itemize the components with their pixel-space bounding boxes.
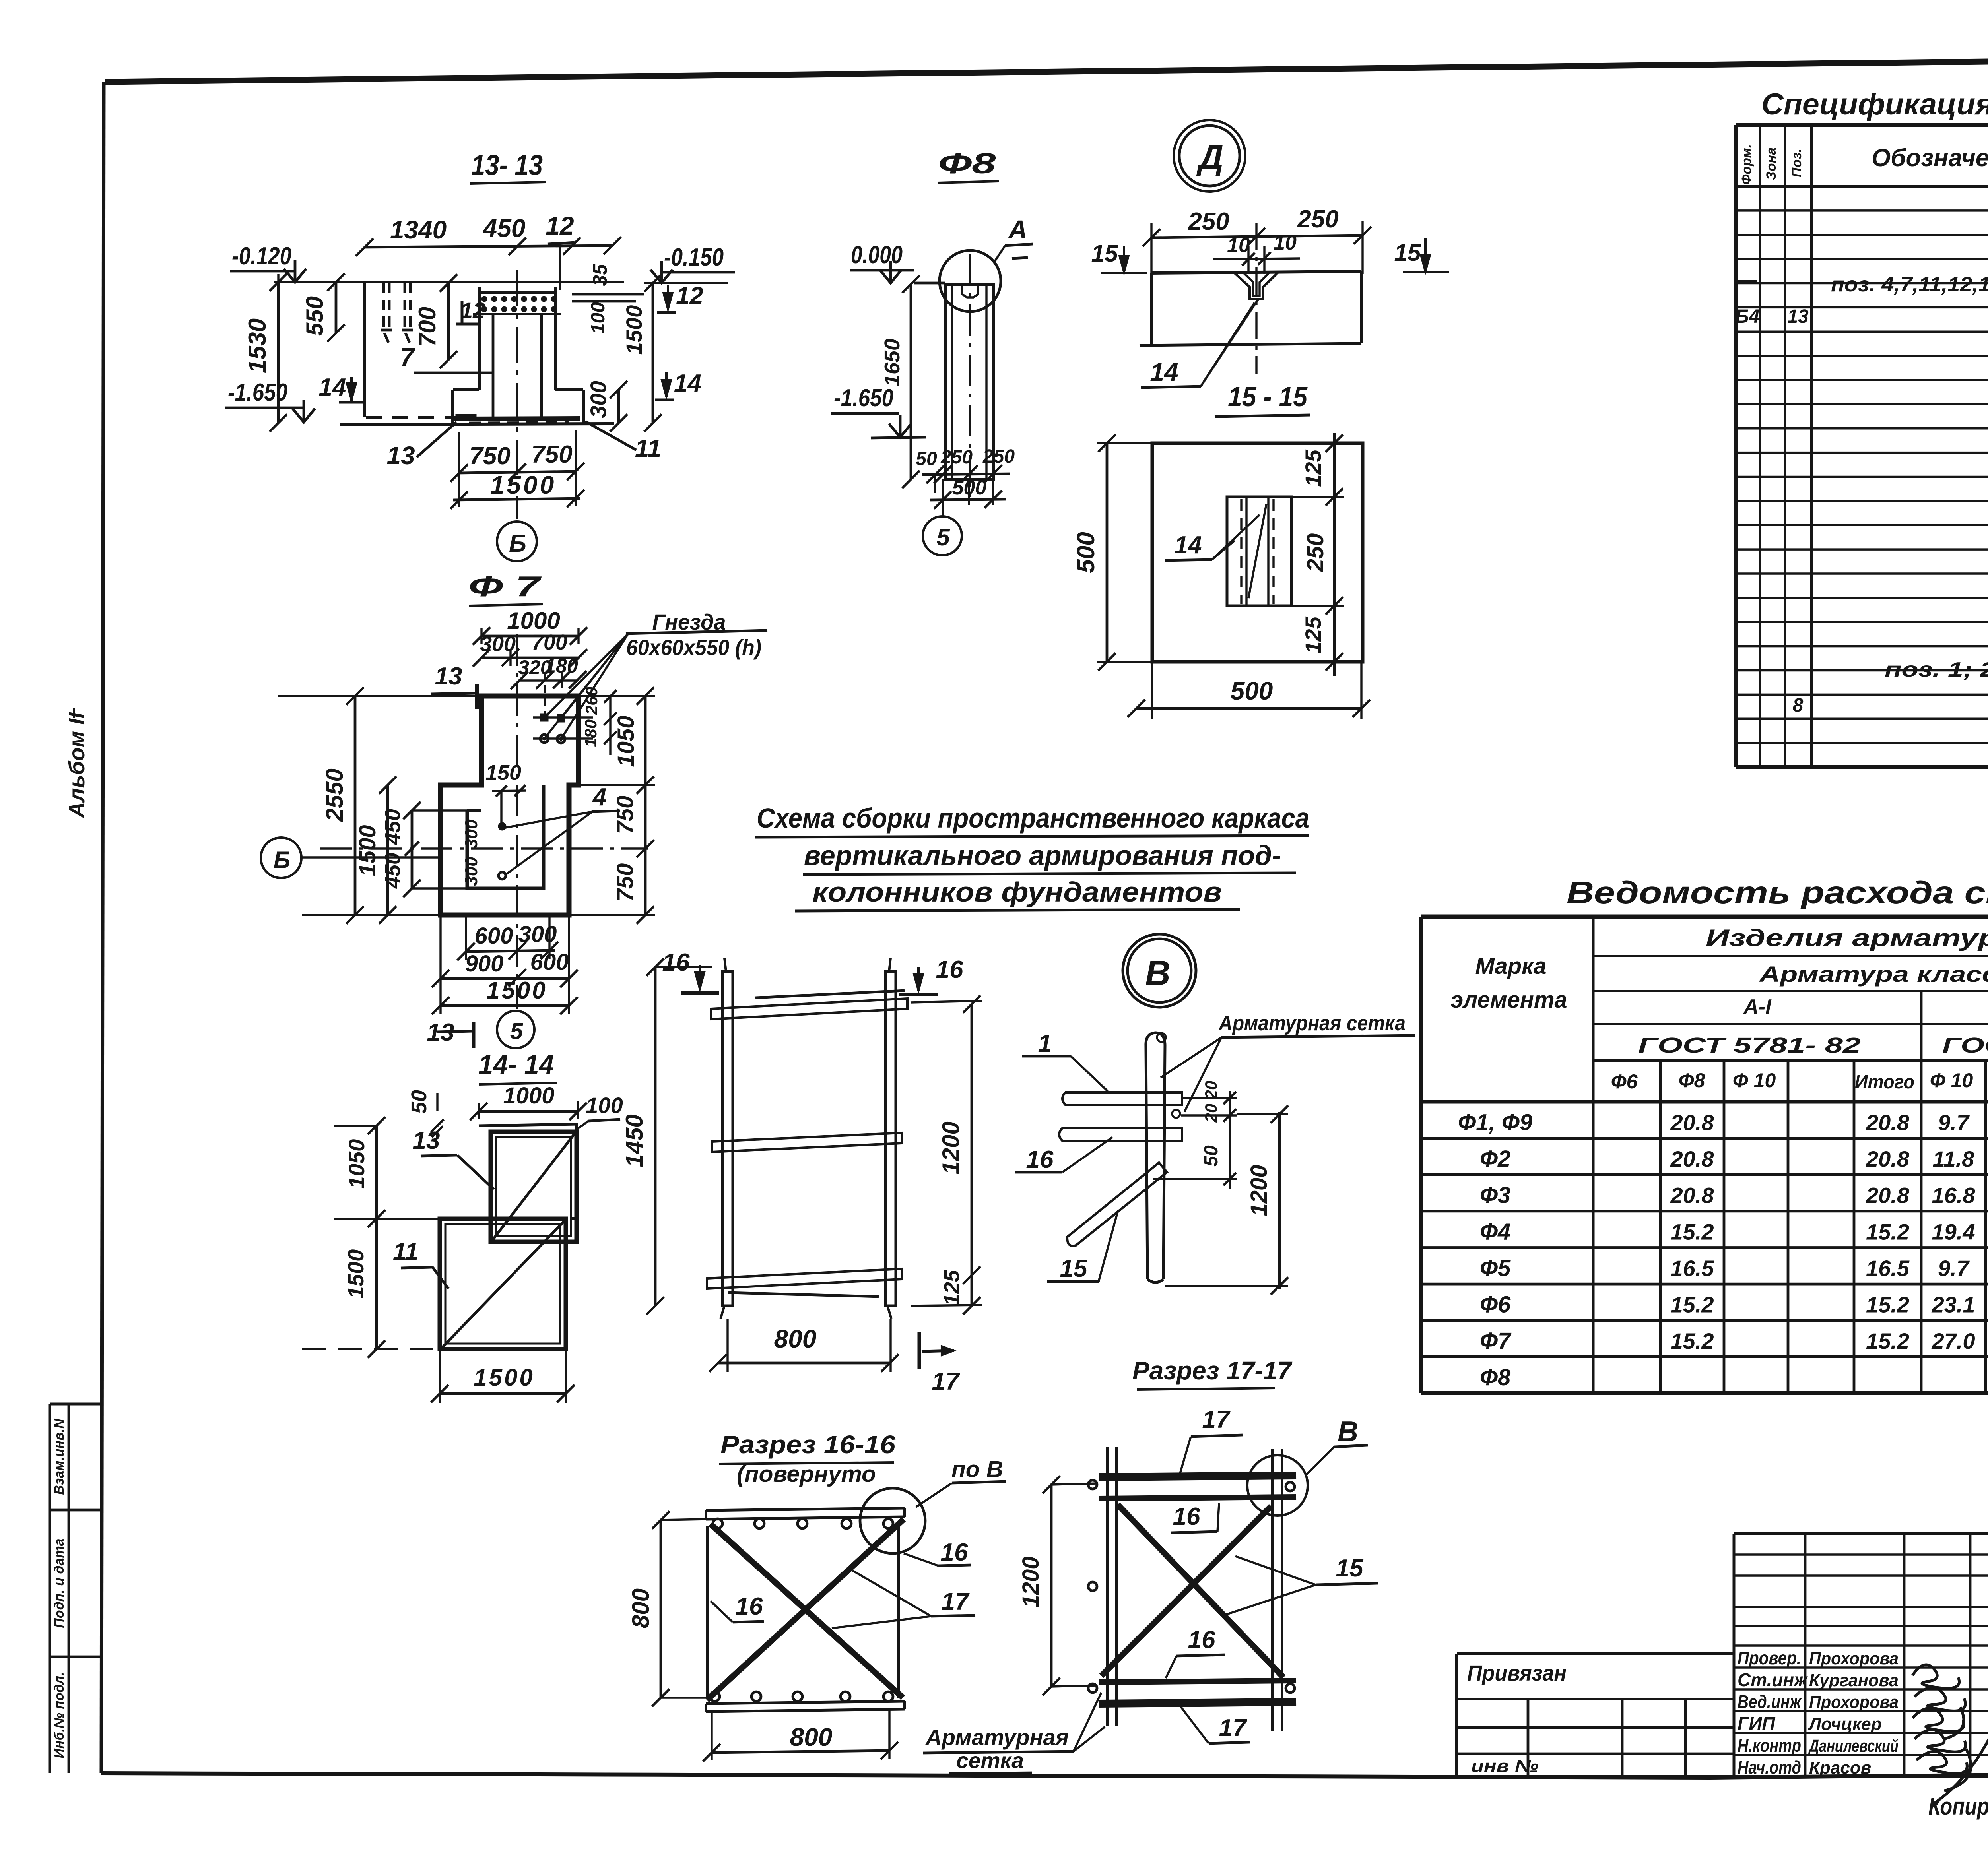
- svg-text:колонников фундаментов: колонников фундаментов: [812, 876, 1222, 907]
- svg-text:14: 14: [674, 370, 701, 397]
- svg-text:Красов: Красов: [1809, 1758, 1871, 1778]
- svg-text:ГОСТ 5781- 82: ГОСТ 5781- 82: [1638, 1033, 1861, 1057]
- svg-text:450: 450: [381, 809, 405, 845]
- svg-text:100: 100: [588, 302, 609, 334]
- svg-text:поз. 4,7,11,12,15,16,17 см. Ф7: поз. 4,7,11,12,15,16,17 см. Ф7: [1831, 273, 1988, 296]
- svg-text:Схема сборки пространственно: Схема сборки пространственного каркаса: [757, 803, 1309, 834]
- svg-text:11.8: 11.8: [1933, 1146, 1975, 1171]
- svg-text:16: 16: [936, 956, 963, 983]
- svg-text:Копировал: Антипова: Копировал: Антипова: [1928, 1793, 1988, 1820]
- svg-text:1340: 1340: [390, 215, 447, 244]
- svg-text:Спецификация к монолитным ф: Спецификация к монолитным фундаментам: [1761, 87, 1988, 121]
- svg-text:250: 250: [982, 446, 1015, 467]
- svg-text:1500: 1500: [474, 1364, 534, 1391]
- svg-text:14- 14: 14- 14: [478, 1049, 554, 1080]
- svg-text:Изделия арматурные: Изделия арматурные: [1706, 925, 1988, 951]
- svg-text:16: 16: [1188, 1626, 1215, 1654]
- svg-text:Б: Б: [509, 530, 526, 557]
- svg-text:9.7: 9.7: [1938, 1256, 1970, 1281]
- svg-text:15 - 15: 15 - 15: [1228, 381, 1308, 412]
- svg-text:250: 250: [1188, 208, 1229, 235]
- svg-text:600: 600: [530, 949, 569, 975]
- svg-text:Прохорова: Прохорова: [1809, 1649, 1899, 1668]
- svg-text:550: 550: [301, 296, 328, 336]
- svg-text:17: 17: [942, 1588, 970, 1615]
- svg-text:13: 13: [435, 663, 462, 690]
- svg-text:125: 125: [940, 1270, 964, 1306]
- svg-text:11: 11: [635, 434, 661, 463]
- svg-text:13- 13: 13- 13: [471, 149, 543, 181]
- svg-text:500: 500: [1072, 532, 1100, 573]
- svg-text:вертикального армирования по: вертикального армирования под-: [804, 840, 1281, 871]
- svg-text:50: 50: [916, 448, 937, 469]
- svg-text:60х60х550 (h): 60х60х550 (h): [626, 635, 761, 660]
- svg-text:15.2: 15.2: [1671, 1328, 1714, 1353]
- svg-text:14: 14: [319, 374, 346, 401]
- svg-text:16: 16: [736, 1593, 763, 1620]
- svg-text:750: 750: [612, 863, 638, 902]
- svg-text:800: 800: [790, 1723, 833, 1751]
- svg-text:Форм.: Форм.: [1739, 144, 1754, 185]
- svg-text:15.2: 15.2: [1866, 1219, 1909, 1244]
- svg-text:ГИП: ГИП: [1738, 1713, 1775, 1734]
- svg-text:14: 14: [1150, 358, 1178, 386]
- svg-text:4: 4: [592, 783, 606, 811]
- svg-text:300: 300: [462, 857, 481, 886]
- svg-text:1500: 1500: [343, 1249, 368, 1299]
- svg-text:300: 300: [518, 921, 557, 947]
- svg-text:Провер.: Провер.: [1738, 1648, 1801, 1668]
- svg-text:Ф8: Ф8: [1480, 1365, 1511, 1390]
- svg-text:Лочцкер: Лочцкер: [1808, 1714, 1882, 1734]
- svg-text:Ф 7: Ф 7: [468, 571, 542, 603]
- svg-text:700: 700: [532, 630, 567, 654]
- svg-text:Б4: Б4: [1736, 306, 1760, 327]
- svg-text:180: 180: [581, 719, 600, 747]
- svg-text:Н.контр: Н.контр: [1738, 1735, 1801, 1756]
- svg-text:15.2: 15.2: [1671, 1292, 1714, 1317]
- svg-text:В: В: [1338, 1416, 1358, 1448]
- svg-text:125: 125: [1301, 616, 1326, 653]
- svg-text:20: 20: [1202, 1081, 1220, 1100]
- svg-text:-1.650: -1.650: [834, 384, 893, 412]
- svg-text:23.1: 23.1: [1932, 1292, 1975, 1317]
- svg-text:Разрез 17-17: Разрез 17-17: [1132, 1356, 1293, 1385]
- svg-text:Взам.инв.N: Взам.инв.N: [52, 1418, 67, 1495]
- svg-text:1500: 1500: [355, 825, 381, 876]
- svg-text:Разрез 16-16: Разрез 16-16: [720, 1430, 895, 1459]
- svg-text:1: 1: [1038, 1030, 1052, 1057]
- svg-text:20: 20: [1202, 1104, 1220, 1123]
- svg-text:А-I: А-I: [1743, 995, 1772, 1018]
- svg-text:20.8: 20.8: [1866, 1110, 1910, 1135]
- svg-text:10: 10: [1274, 231, 1297, 254]
- svg-text:Б: Б: [274, 847, 290, 873]
- svg-text:Ф5: Ф5: [1480, 1255, 1511, 1281]
- svg-text:15.2: 15.2: [1671, 1219, 1714, 1244]
- svg-text:250: 250: [940, 447, 973, 468]
- svg-text:Ф4: Ф4: [1480, 1219, 1511, 1245]
- svg-text:17: 17: [1202, 1406, 1231, 1433]
- svg-text:1450: 1450: [621, 1114, 648, 1167]
- svg-text:Альбом II: Альбом II: [64, 712, 89, 819]
- svg-text:1200: 1200: [1246, 1165, 1272, 1216]
- svg-text:Ф7: Ф7: [1480, 1328, 1512, 1354]
- svg-text:750: 750: [531, 441, 572, 468]
- svg-text:Ст.инж: Ст.инж: [1738, 1669, 1808, 1690]
- svg-text:Арматурная: Арматурная: [925, 1725, 1069, 1750]
- svg-text:125: 125: [1301, 449, 1326, 487]
- svg-text:750: 750: [469, 442, 510, 470]
- svg-text:450: 450: [482, 214, 526, 242]
- svg-text:11: 11: [393, 1238, 418, 1266]
- svg-text:Арматура класса: Арматура класса: [1758, 962, 1988, 987]
- svg-text:50: 50: [407, 1090, 431, 1114]
- svg-text:2550: 2550: [321, 768, 348, 822]
- svg-text:700: 700: [414, 307, 441, 347]
- svg-text:В: В: [1145, 953, 1171, 993]
- svg-text:Ф8: Ф8: [938, 148, 996, 180]
- svg-text:—: —: [1735, 268, 1757, 292]
- svg-text:1500: 1500: [490, 471, 556, 499]
- svg-text:Арматурная сетка: Арматурная сетка: [1218, 1011, 1406, 1035]
- svg-text:Подп. и дата: Подп. и дата: [52, 1538, 67, 1628]
- svg-text:16.5: 16.5: [1671, 1256, 1714, 1281]
- svg-text:0.000: 0.000: [851, 241, 903, 269]
- svg-text:Прохорова: Прохорова: [1809, 1693, 1899, 1712]
- svg-text:10: 10: [1227, 234, 1250, 257]
- svg-text:27.0: 27.0: [1932, 1328, 1975, 1353]
- svg-text:Обозначение: Обозначение: [1872, 144, 1988, 172]
- svg-text:Ф6: Ф6: [1611, 1070, 1638, 1093]
- svg-text:Данилевский: Данилевский: [1808, 1736, 1899, 1756]
- svg-text:17: 17: [932, 1368, 960, 1395]
- svg-text:16.5: 16.5: [1866, 1256, 1910, 1281]
- svg-text:250: 250: [1297, 206, 1338, 233]
- svg-text:15: 15: [1060, 1255, 1088, 1282]
- svg-text:250: 250: [1303, 533, 1328, 572]
- svg-text:элемента: элемента: [1450, 987, 1567, 1013]
- svg-text:100: 100: [586, 1093, 623, 1118]
- svg-text:12: 12: [676, 282, 703, 310]
- svg-text:900: 900: [465, 951, 504, 977]
- svg-text:А: А: [1008, 215, 1027, 244]
- svg-text:12: 12: [460, 298, 485, 323]
- svg-text:1500: 1500: [486, 977, 547, 1004]
- svg-text:Марка: Марка: [1475, 953, 1546, 979]
- svg-text:13: 13: [386, 441, 415, 470]
- svg-text:Ф3: Ф3: [1480, 1183, 1511, 1208]
- svg-text:150: 150: [485, 761, 521, 785]
- svg-text:1200: 1200: [938, 1121, 964, 1174]
- svg-text:1000: 1000: [507, 607, 560, 634]
- svg-text:поз. 1; 2; 4: поз. 1; 2; 4: [1885, 658, 1988, 681]
- svg-text:5: 5: [936, 524, 950, 551]
- svg-text:600: 600: [475, 923, 513, 949]
- svg-text:1650: 1650: [880, 339, 904, 386]
- svg-text:13: 13: [413, 1127, 440, 1154]
- svg-text:800: 800: [627, 1588, 654, 1628]
- svg-text:1500: 1500: [621, 305, 646, 355]
- svg-text:20.8: 20.8: [1866, 1146, 1910, 1171]
- svg-text:-0.120: -0.120: [232, 242, 291, 270]
- svg-text:1530: 1530: [244, 318, 271, 373]
- svg-text:20.8: 20.8: [1670, 1146, 1714, 1171]
- svg-text:1050: 1050: [344, 1139, 369, 1189]
- svg-text:500: 500: [1231, 677, 1273, 705]
- svg-text:Вед.инж: Вед.инж: [1738, 1691, 1802, 1712]
- svg-text:15: 15: [1394, 239, 1421, 266]
- svg-text:12: 12: [546, 211, 574, 240]
- svg-text:Инб.№ подл.: Инб.№ подл.: [52, 1672, 67, 1758]
- svg-text:инв №: инв №: [1471, 1757, 1539, 1776]
- svg-text:Зона: Зона: [1764, 147, 1779, 180]
- svg-text:1000: 1000: [503, 1083, 554, 1109]
- svg-text:500: 500: [952, 476, 987, 499]
- svg-text:20.8: 20.8: [1670, 1183, 1714, 1208]
- svg-text:15.2: 15.2: [1866, 1292, 1909, 1317]
- svg-text:Ф 10: Ф 10: [1733, 1069, 1776, 1092]
- svg-text:300: 300: [586, 381, 611, 418]
- svg-text:Ф2: Ф2: [1480, 1146, 1511, 1172]
- svg-text:Ведомость расхода стали на: Ведомость расхода стали на элемент, кг.: [1567, 875, 1988, 910]
- svg-text:14: 14: [1175, 531, 1202, 559]
- svg-text:Ф1, Ф9: Ф1, Ф9: [1458, 1109, 1532, 1135]
- svg-text:20.8: 20.8: [1866, 1183, 1910, 1208]
- svg-text:16: 16: [1173, 1503, 1200, 1530]
- svg-text:16: 16: [1026, 1146, 1054, 1173]
- svg-text:(повернуто: (повернуто: [737, 1461, 876, 1487]
- svg-text:7: 7: [400, 343, 415, 371]
- svg-text:8: 8: [1793, 695, 1804, 716]
- svg-text:Д: Д: [1196, 138, 1223, 176]
- svg-text:Ф 10: Ф 10: [1930, 1069, 1973, 1092]
- svg-text:750: 750: [612, 796, 638, 834]
- svg-text:по В: по В: [951, 1456, 1003, 1482]
- svg-text:19.4: 19.4: [1932, 1219, 1975, 1244]
- svg-text:Итого: Итого: [1855, 1072, 1914, 1093]
- svg-text:260: 260: [582, 687, 601, 715]
- svg-text:ГОСТ 5781- 82: ГОСТ 5781- 82: [1942, 1033, 1988, 1057]
- svg-text:16: 16: [941, 1539, 968, 1566]
- svg-text:13: 13: [1787, 306, 1809, 327]
- svg-text:17: 17: [1219, 1714, 1247, 1742]
- svg-text:800: 800: [774, 1324, 817, 1353]
- svg-text:Привязан: Привязан: [1467, 1660, 1567, 1685]
- svg-text:Нач.отд: Нач.отд: [1738, 1757, 1801, 1778]
- svg-text:35: 35: [589, 264, 611, 286]
- svg-text:300: 300: [462, 819, 481, 849]
- svg-text:50: 50: [1201, 1145, 1222, 1167]
- svg-text:-0.150: -0.150: [664, 244, 724, 271]
- svg-text:5: 5: [510, 1018, 523, 1044]
- svg-text:1050: 1050: [613, 715, 639, 767]
- svg-text:16: 16: [662, 949, 690, 976]
- svg-text:15: 15: [1091, 240, 1118, 267]
- svg-text:15.2: 15.2: [1866, 1328, 1909, 1353]
- svg-text:20.8: 20.8: [1670, 1110, 1714, 1135]
- svg-text:Курганова: Курганова: [1809, 1671, 1899, 1690]
- svg-text:Ф6: Ф6: [1480, 1292, 1511, 1318]
- svg-text:9.7: 9.7: [1938, 1110, 1970, 1135]
- svg-text:1200: 1200: [1018, 1556, 1044, 1607]
- svg-text:Поз.: Поз.: [1789, 149, 1804, 177]
- svg-text:15: 15: [1336, 1555, 1364, 1582]
- svg-text:Ф8: Ф8: [1679, 1069, 1705, 1092]
- svg-text:16.8: 16.8: [1932, 1183, 1976, 1208]
